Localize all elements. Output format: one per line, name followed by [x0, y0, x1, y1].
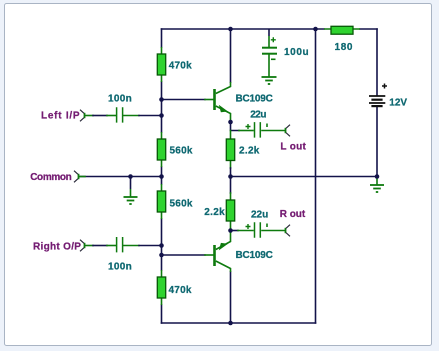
ground symbol at battery negative — [370, 177, 384, 193]
svg-text:2.2k: 2.2k — [239, 146, 260, 157]
minus tick of right 22u — [266, 224, 268, 228]
plus sign of 100u — [271, 37, 276, 42]
wire: Common to bias midpoint — [79, 176, 162, 178]
capacitor 22u (right, polarized) — [255, 222, 261, 238]
plus sign of battery — [382, 84, 387, 89]
svg-text:560k: 560k — [170, 146, 193, 157]
junction dot left rail / Left I/P — [159, 113, 164, 118]
ground symbol under 100u — [262, 77, 277, 84]
junction dot left rail / lower base wire — [159, 253, 164, 258]
resistor 2.2k (left channel) — [226, 139, 234, 161]
connector Common — [74, 171, 79, 183]
ground symbol at Common — [124, 177, 138, 205]
connector R out — [286, 225, 291, 237]
junction dot lower emitter node — [228, 228, 233, 233]
svg-text:100n: 100n — [108, 262, 132, 273]
plus sign of left 22u — [246, 124, 251, 129]
wire: lower collector down to bottom rail — [230, 272, 232, 323]
capacitor 22u (left, polarized) — [255, 122, 261, 138]
junction dot left rail / Right O/P — [159, 243, 164, 248]
svg-text:100u: 100u — [284, 47, 309, 58]
wire: upper emitter node vertical + branch to 22u — [231, 122, 240, 131]
wire: battery positive rail x=377 — [376, 29, 378, 177]
wire: bottom supply rail — [162, 322, 316, 324]
wire: left 2.2k bottom lead to ground wire — [230, 161, 232, 169]
junction dot upper emitter node — [228, 120, 233, 125]
junction dot left rail / ground wire — [159, 174, 164, 179]
wire: Left I/P input wire — [85, 115, 93, 117]
minus tick of left 22u — [266, 124, 268, 128]
junction dot battery negative / ground wire — [375, 174, 380, 179]
wire: Common lead — [79, 176, 85, 178]
wire: left bias rail x=161.5 — [161, 29, 163, 323]
junction dot bottom rail / lower collector — [228, 321, 233, 326]
junction dot left rail / upper base wire — [159, 97, 164, 102]
svg-text:560k: 560k — [170, 199, 193, 210]
wire: upper collector vertical from top rail — [230, 29, 232, 82]
capacitor 100n (right input) — [117, 237, 123, 252]
junction dot Common ground stem — [128, 174, 133, 179]
svg-text:Left I/P: Left I/P — [41, 111, 80, 122]
junction dot top rail / x=315 rail — [313, 27, 318, 32]
transistor Q1 BC109C (upper) — [213, 82, 230, 122]
connector L out — [286, 125, 291, 137]
connector Right O/P — [80, 240, 85, 252]
svg-text:180: 180 — [335, 42, 354, 53]
svg-text:2.2k: 2.2k — [204, 207, 225, 218]
wire: right 2.2k top lead from ground wire — [230, 177, 232, 194]
svg-text:22u: 22u — [250, 110, 266, 121]
resistor 180 (horizontal) — [324, 26, 360, 34]
svg-text:BC109C: BC109C — [236, 94, 273, 105]
capacitor 100u (polarized, vertical) — [262, 29, 277, 77]
wire: lower emitter node + branch to right 22u — [230, 221, 232, 231]
junction dot top rail / collector — [228, 27, 233, 32]
resistor 470k (top) — [157, 47, 165, 82]
wire: top supply rail — [162, 28, 325, 30]
resistor 560k (upper) — [157, 132, 165, 167]
wire: output ground wire to battery negative — [231, 176, 378, 178]
wire: Right O/P input wire — [85, 245, 93, 247]
wire: left 22u output lead to L out — [262, 130, 285, 132]
resistor 470k (bottom) — [157, 270, 165, 305]
wire: vertical rail x=315.5 from top rail to bottom rail — [315, 29, 317, 323]
transistor Q2 BC109C (lower) — [213, 231, 230, 273]
capacitor 100n (left input) — [117, 107, 123, 122]
svg-text:L out: L out — [280, 142, 306, 153]
battery 12V — [369, 96, 385, 107]
junction dot ground wire / 2.2k resistors — [228, 174, 233, 179]
wire: right 22u output lead to R out — [262, 230, 285, 232]
svg-text:22u: 22u — [251, 210, 268, 221]
wire: upper transistor base wire — [162, 99, 206, 101]
plus sign of right 22u — [246, 224, 251, 229]
svg-text:Common: Common — [30, 172, 71, 183]
wire: top rail right of 180 resistor — [360, 28, 377, 30]
svg-text:100n: 100n — [108, 94, 132, 105]
minus sign of 100u — [271, 58, 276, 60]
svg-text:470k: 470k — [169, 61, 192, 72]
svg-text:Right O/P: Right O/P — [33, 242, 81, 253]
wire: lower transistor base wire — [162, 254, 206, 256]
resistor 560k (lower) — [157, 184, 165, 219]
svg-text:470k: 470k — [169, 285, 192, 296]
svg-text:BC109C: BC109C — [236, 250, 273, 261]
resistor 2.2k (right channel) — [226, 200, 234, 221]
connector Left I/P — [80, 110, 85, 122]
svg-text:R out: R out — [280, 209, 306, 220]
svg-text:12V: 12V — [389, 98, 407, 109]
